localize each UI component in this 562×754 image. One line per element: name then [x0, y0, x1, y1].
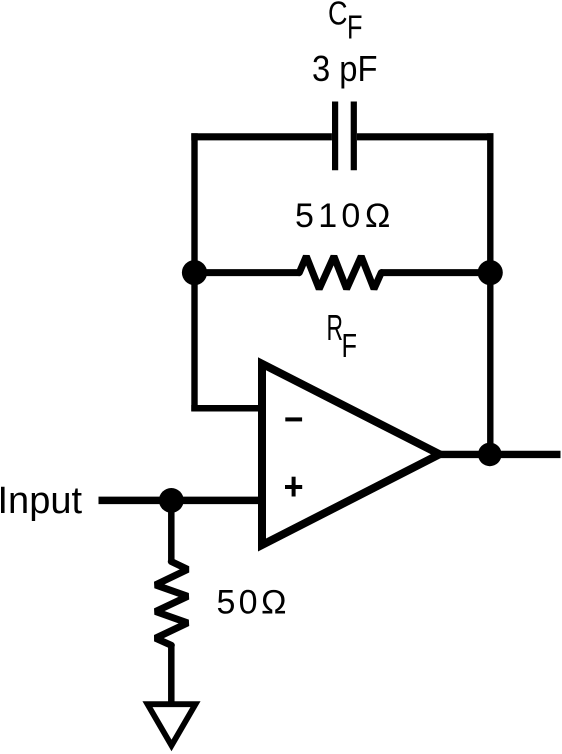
svg-text:510Ω: 510Ω: [295, 197, 395, 235]
svg-text:50Ω: 50Ω: [217, 584, 291, 622]
svg-text:3 pF: 3 pF: [312, 48, 378, 89]
svg-text:C: C: [328, 0, 348, 32]
svg-text:F: F: [342, 327, 358, 364]
svg-text:Input: Input: [0, 480, 82, 522]
svg-text:F: F: [347, 9, 363, 46]
